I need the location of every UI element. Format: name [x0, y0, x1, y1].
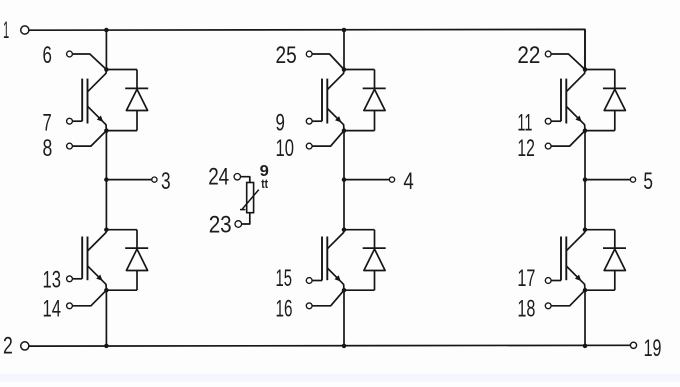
- wire - leg B mid main (emitter to phase to lower collector): [343, 131, 345, 230]
- transistor - bottom IGBT leg A: [81, 237, 83, 279]
- wire - leg C lower main (emitter to bus): [584, 290, 586, 346]
- svg-text:9: 9: [276, 109, 285, 136]
- thermistor R(NTC) body: [247, 183, 254, 213]
- svg-text:8: 8: [43, 135, 53, 162]
- diode - bottom freewheel leg A: [106, 229, 137, 231]
- thermistor diagonal strike: [242, 190, 259, 210]
- svg-text:6: 6: [43, 42, 52, 69]
- svg-text:19: 19: [644, 335, 662, 362]
- svg-text:tt: tt: [261, 176, 268, 191]
- wire - leg A lower main (emitter to bus): [105, 290, 107, 346]
- node 3 phase output: [104, 177, 109, 182]
- svg-text:17: 17: [517, 265, 535, 292]
- svg-text:11: 11: [517, 109, 532, 136]
- junction - leg C bottom bus: [583, 344, 588, 349]
- transistor - top IGBT leg B: [321, 79, 323, 122]
- svg-text:13: 13: [43, 266, 62, 293]
- junction - leg A bottom bus: [104, 344, 109, 349]
- svg-text:14: 14: [43, 296, 62, 323]
- transistor - bottom IGBT leg B: [321, 237, 323, 281]
- wire - leg B lower main (emitter to bus): [343, 290, 345, 346]
- junction - leg B top bus: [342, 28, 347, 33]
- junction - leg B bottom bus: [342, 344, 347, 349]
- svg-text:5: 5: [643, 168, 653, 195]
- junction - leg B top emitter: [342, 128, 347, 133]
- junction - leg A top emitter: [104, 128, 109, 133]
- transistor - top IGBT leg A: [81, 79, 83, 122]
- svg-text:10: 10: [276, 135, 295, 162]
- svg-text:22: 22: [517, 42, 540, 69]
- svg-text:2: 2: [3, 332, 13, 359]
- svg-text:1: 1: [3, 17, 9, 44]
- svg-text:18: 18: [517, 296, 535, 323]
- junction - leg A top collector: [104, 67, 109, 72]
- diode - top freewheel leg B: [344, 69, 375, 71]
- junction - leg C top emitter: [583, 128, 588, 133]
- wire - leg C bus drop to top collector: [584, 30, 586, 70]
- svg-text:23: 23: [209, 212, 232, 239]
- wire - bottom DC- bus: [29, 344, 630, 347]
- junction - leg A top bus: [104, 28, 109, 33]
- svg-text:15: 15: [276, 265, 293, 292]
- svg-text:7: 7: [43, 109, 52, 136]
- junction - leg B top collector: [342, 67, 347, 72]
- junction - leg C bottom collector: [583, 227, 588, 232]
- diode - top freewheel leg A: [106, 69, 137, 71]
- junction - leg C bottom emitter: [583, 288, 588, 293]
- svg-text:3: 3: [161, 168, 171, 195]
- svg-text:4: 4: [403, 168, 413, 195]
- node 5 phase output: [583, 177, 588, 182]
- junction - leg B bottom collector: [342, 227, 347, 232]
- transistor - top IGBT leg C: [560, 79, 562, 122]
- diode - bottom freewheel leg B: [344, 229, 375, 231]
- svg-text:25: 25: [276, 42, 297, 69]
- diode - bottom freewheel leg C: [585, 229, 615, 231]
- svg-text:12: 12: [517, 135, 535, 162]
- junction - leg A bottom emitter: [104, 288, 109, 293]
- node 4 phase output: [342, 177, 347, 182]
- transistor - bottom IGBT leg C: [560, 237, 562, 281]
- wire - top DC+ bus: [29, 29, 585, 69]
- svg-text:24: 24: [208, 163, 229, 190]
- junction - leg C top collector: [583, 67, 588, 72]
- svg-text:16: 16: [276, 296, 293, 323]
- wire - leg B bus drop to top collector: [343, 30, 345, 70]
- faint scan tint at bottom edge: [0, 374, 680, 382]
- wire - leg A bus drop to top collector: [105, 30, 107, 70]
- node 19 terminal: [630, 342, 636, 348]
- wire - leg A mid main (emitter to phase to lower collector): [105, 131, 107, 230]
- diode - top freewheel leg C: [585, 69, 615, 71]
- junction - leg B bottom emitter: [342, 288, 347, 293]
- wire - leg C mid main (emitter to phase to lower collector): [584, 131, 586, 230]
- junction - leg A bottom collector: [104, 227, 109, 232]
